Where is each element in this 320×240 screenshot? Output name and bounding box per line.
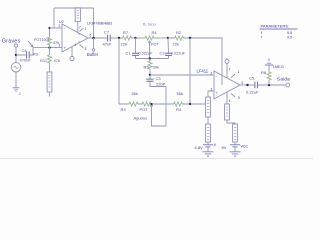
input port pin	[14, 44, 17, 47]
wire inv input U1	[150, 74, 213, 76]
balance stubs U1	[231, 74, 235, 97]
wire R2 to feedback corner	[168, 38, 222, 85]
svg-text:R5: R5	[144, 65, 150, 70]
svg-text:POT: POT	[140, 107, 149, 112]
svg-text:Graves: Graves	[2, 39, 21, 45]
wire battery to ground	[234, 147, 236, 151]
junction pot divider	[48, 46, 50, 48]
wire down to treble chain	[118, 38, 120, 104]
resistor R13 rect bias lower	[206, 124, 211, 142]
pot wiper Agudos loop	[152, 87, 167, 127]
resistor R8	[268, 80, 270, 85]
svg-text:4.8V: 4.8V	[195, 145, 204, 150]
resistor R12 rect below divider	[49, 66, 51, 72]
svg-text:9V: 9V	[222, 145, 227, 150]
svg-text:f: f	[261, 35, 263, 39]
svg-text:C7: C7	[104, 29, 110, 34]
ground top R8	[265, 63, 273, 65]
junction chain node3	[189, 103, 191, 105]
svg-text:7: 7	[79, 26, 81, 30]
svg-text:R4: R4	[152, 30, 158, 35]
battery V2 4.8V	[207, 142, 209, 144]
svg-text:5: 5	[238, 96, 240, 100]
resistor R9 upper 47k	[49, 28, 51, 37]
svg-text:4: 4	[74, 43, 76, 47]
wire cap rail	[136, 58, 169, 60]
svg-text:Saida: Saida	[277, 76, 290, 81]
ground GND3	[230, 152, 241, 156]
resistor R7	[122, 36, 133, 40]
svg-text:C4: C4	[22, 48, 28, 53]
svg-text:C1: C1	[126, 50, 132, 55]
svg-text:47uF: 47uF	[103, 42, 113, 47]
resistor R1 rect above op-amp	[75, 8, 80, 22]
op-amp +/-	[64, 26, 67, 50]
svg-text:0.022uF: 0.022uF	[171, 51, 186, 55]
wire input vertical	[15, 47, 17, 62]
junction node1	[134, 37, 136, 39]
svg-text:2: 2	[59, 24, 61, 28]
pot wiper R4	[149, 41, 151, 59]
svg-text:R9: R9	[33, 52, 39, 57]
svg-text:+: +	[64, 46, 67, 51]
svg-text:1MEG: 1MEG	[273, 64, 284, 69]
junction C7 R7	[118, 37, 120, 39]
wire C4 up to pot wiper node	[33, 48, 62, 55]
svg-text:56k: 56k	[132, 91, 138, 96]
svg-text:POT: POT	[151, 43, 159, 47]
svg-text:VCC: VCC	[241, 144, 249, 148]
junction wiper	[150, 103, 152, 105]
wire U2 output	[88, 37, 107, 39]
svg-text:1: 1	[85, 27, 87, 31]
resistor R6 rect bias upper	[206, 97, 211, 117]
svg-text:R2: R2	[176, 30, 182, 35]
junction feedback output	[92, 37, 94, 39]
svg-text:LF411: LF411	[197, 69, 209, 74]
wire below rect	[49, 92, 51, 97]
junction R8	[268, 84, 270, 86]
svg-text:POT100k: POT100k	[34, 38, 50, 42]
junction node3	[189, 37, 191, 39]
svg-text:56k: 56k	[177, 91, 183, 96]
svg-text:7: 7	[229, 67, 231, 71]
pin numbers U2	[59, 24, 92, 47]
svg-text:-V: -V	[213, 143, 217, 147]
output port Saida	[286, 83, 290, 87]
svg-text:0: 0	[19, 92, 21, 96]
svg-text:39k: 39k	[153, 65, 159, 70]
svg-text:470nF: 470nF	[20, 58, 32, 63]
svg-text:4: 4	[229, 99, 231, 103]
voltage source V1	[11, 63, 20, 72]
junction output	[246, 84, 248, 86]
resistor R14 rect below pin4	[225, 104, 230, 120]
op-amp U1 +/-	[216, 74, 219, 95]
svg-text:R3: R3	[121, 107, 127, 112]
svg-text:0.22uF: 0.22uF	[246, 89, 259, 94]
svg-text:6: 6	[90, 34, 92, 38]
svg-text:22k: 22k	[173, 42, 179, 47]
wire source to ground	[15, 72, 17, 88]
battery V3 9V	[234, 142, 236, 144]
pot wiper arrow Graves	[28, 41, 33, 47]
svg-text:3: 3	[59, 44, 61, 48]
balance marks inside U2	[78, 34, 81, 42]
capacitor C5	[255, 82, 258, 89]
svg-text:9.5: 9.5	[287, 35, 292, 39]
resistor R5	[149, 59, 151, 62]
svg-text:C5: C5	[249, 76, 255, 81]
pin numbers U1	[211, 67, 244, 103]
op-amp U1	[214, 71, 240, 99]
wire battery to ground	[207, 147, 209, 151]
svg-text:0.022uF: 0.022uF	[139, 51, 154, 55]
svg-text:5: 5	[85, 47, 87, 51]
svg-text:47k: 47k	[54, 58, 60, 63]
wire pin3 to bias	[208, 91, 214, 97]
pin7 V+ bubble	[226, 64, 228, 78]
capacitor C2	[167, 38, 170, 59]
pin labels 1 5 U2	[85, 27, 87, 51]
node junction input	[15, 54, 17, 56]
svg-text:R11: R11	[40, 58, 48, 63]
svg-text:PARAMETERS:: PARAMETERS:	[261, 23, 290, 28]
resistor R4 bass pot	[136, 37, 145, 39]
resistor R3	[128, 102, 139, 106]
junction node2	[167, 37, 169, 39]
wire jog to VCC column	[227, 120, 235, 124]
wire R1 to pin7	[77, 21, 79, 32]
balance stubs U2 pins 1 5	[80, 28, 84, 48]
page edge line	[0, 158, 313, 160]
svg-text:R8: R8	[261, 70, 267, 75]
svg-text:220P: 220P	[156, 81, 166, 86]
treble chain wire	[119, 103, 206, 105]
resistor R10	[173, 102, 184, 106]
svg-text:R4: R4	[176, 107, 182, 112]
junction R5 C3	[149, 74, 151, 76]
resistor R15 rect vcc	[233, 124, 238, 142]
resistor R11 lower 47k	[49, 48, 51, 55]
svg-text:2: 2	[211, 71, 213, 75]
svg-text:+: +	[216, 90, 219, 95]
resistor R2	[174, 36, 185, 40]
svg-text:R7: R7	[123, 30, 129, 35]
wire feedback rail U2	[54, 8, 94, 38]
svg-text:Agudos: Agudos	[134, 115, 148, 120]
svg-text:6: 6	[242, 81, 244, 85]
pin4 wire U1	[226, 92, 228, 104]
svg-text:LF347/BB/4883: LF347/BB/4883	[87, 21, 112, 25]
svg-text:22k: 22k	[121, 42, 127, 47]
svg-text:-: -	[64, 26, 66, 31]
wire U1 output	[240, 84, 255, 86]
svg-text:B. tono: B. tono	[143, 22, 156, 27]
capacitor C7	[108, 35, 111, 41]
svg-text:C2: C2	[160, 50, 166, 55]
probe stub below output junction	[93, 38, 95, 49]
svg-text:Buffer: Buffer	[87, 52, 99, 57]
resistor POT Agudos	[141, 102, 152, 106]
wire node3 down	[189, 38, 191, 104]
capacitor C1	[135, 38, 137, 59]
wire between bias rects	[207, 117, 209, 124]
op-amp U2	[62, 24, 88, 52]
pin4 V- bubble	[71, 47, 73, 57]
capacitor C4	[16, 54, 33, 56]
svg-text:0: 0	[268, 58, 270, 62]
svg-text:1: 1	[238, 70, 240, 74]
ground GND2	[203, 152, 214, 156]
wire pin2	[50, 27, 63, 29]
capacitor C3	[150, 75, 166, 87]
ground GND1	[13, 88, 20, 92]
junction rail wiper	[149, 57, 151, 59]
svg-text:-: -	[216, 74, 218, 79]
